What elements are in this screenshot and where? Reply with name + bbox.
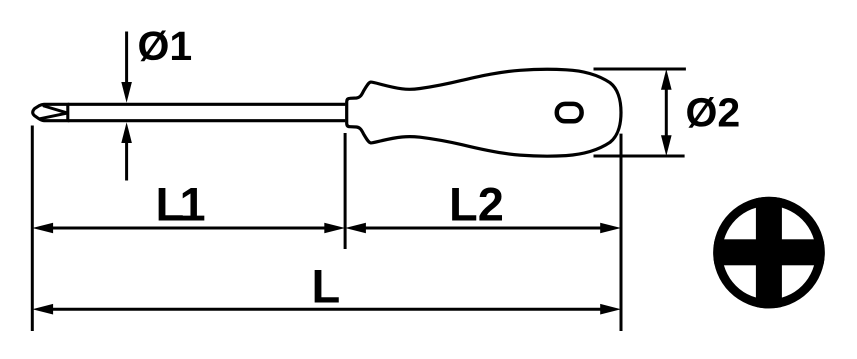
dim Ø1 lower arrow line bbox=[125, 141, 128, 181]
handle outline bbox=[347, 69, 621, 156]
left extension line bbox=[31, 126, 34, 332]
middle extension line (shaft/handle boundary) bbox=[344, 133, 347, 249]
svg-text:L1: L1 bbox=[156, 178, 206, 231]
tip flute upper diagonal bbox=[44, 106, 67, 113]
svg-text:Ø1: Ø1 bbox=[138, 23, 193, 69]
tip flute lower diagonal bbox=[40, 113, 67, 119]
dim Ø2 top extension line bbox=[594, 68, 686, 71]
shaft top line bbox=[68, 103, 346, 106]
dim Ø2 bottom extension line bbox=[594, 155, 685, 158]
dim L line with arrows bbox=[51, 308, 603, 311]
svg-text:Ø2: Ø2 bbox=[686, 90, 741, 136]
shaft bottom line bbox=[68, 119, 346, 122]
screwdriver tip outline bbox=[33, 104, 69, 120]
dim Ø1 upper arrow line bbox=[125, 32, 128, 85]
svg-text:L2: L2 bbox=[449, 178, 504, 231]
dim Ø2 vertical dimension line with arrows bbox=[665, 87, 668, 138]
handle hanging hole bbox=[557, 104, 582, 121]
phillips bit icon bbox=[713, 197, 825, 309]
dim L1 line with arrows bbox=[51, 227, 327, 230]
right extension line bbox=[620, 134, 623, 331]
tip/shaft junction line bbox=[66, 104, 69, 120]
svg-text:L: L bbox=[312, 260, 341, 313]
dim L2 line with arrows bbox=[363, 227, 603, 230]
